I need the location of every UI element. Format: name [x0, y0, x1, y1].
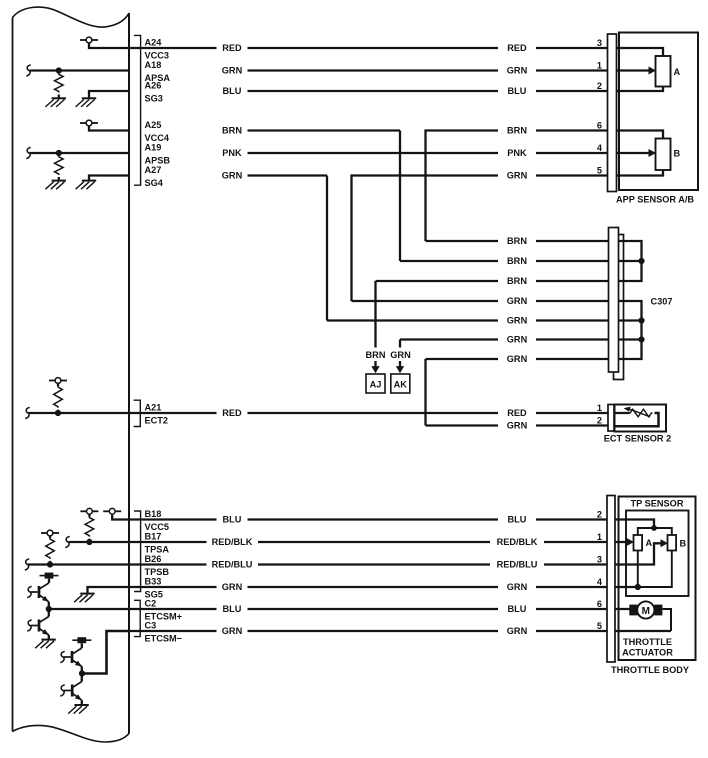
wire A26 BLU segment 3 to pot A bottom	[536, 87, 663, 92]
svg-text:6: 6	[597, 599, 602, 609]
wire C2 BLU segment 2	[248, 608, 499, 610]
ECT2 junction	[55, 410, 61, 416]
ETCSM- internal wire to C3	[82, 631, 129, 674]
TPSA internal wire	[69, 541, 130, 543]
svg-text:THROTTLE BODY: THROTTLE BODY	[611, 665, 689, 675]
svg-text:B18: B18	[145, 509, 162, 519]
TP pot bottom junction	[635, 584, 641, 590]
svg-text:ACTUATOR: ACTUATOR	[622, 647, 673, 657]
Q1 base hook	[27, 586, 31, 597]
svg-text:GRN: GRN	[507, 296, 528, 306]
TPSB pull-up resistor	[49, 536, 51, 538]
BRN branch down to connector AJ	[374, 281, 376, 348]
svg-text:1: 1	[597, 60, 602, 70]
svg-text:A19: A19	[145, 142, 162, 152]
Q2 base hook	[27, 620, 31, 631]
wire A19 PNK segment 3 wiper B	[536, 152, 649, 154]
svg-text:GRN: GRN	[390, 350, 411, 360]
TPSB supply symbol	[47, 530, 53, 536]
C307 row 2 BRN	[400, 260, 498, 262]
ETCSM- driver supply square	[77, 637, 86, 643]
svg-text:B33: B33	[145, 576, 162, 586]
ECM ribbon right edge	[128, 13, 130, 734]
wire BLU segment 3 to TP rail	[536, 520, 654, 529]
VCC3 supply symbol	[86, 37, 92, 43]
ECT2 supply symbol	[55, 378, 61, 384]
ETCSM+ driver supply square	[45, 573, 54, 579]
throttle body connector bar	[607, 496, 615, 663]
wire B17 RED/BLK segment 2	[258, 541, 490, 543]
APSB continuation hook	[26, 147, 30, 158]
ECM ribbon left edge	[12, 18, 14, 732]
svg-text:BLU: BLU	[508, 86, 527, 96]
svg-text:BLU: BLU	[223, 86, 242, 96]
bracket pins B18-SG5	[134, 511, 141, 592]
svg-text:BRN: BRN	[507, 236, 527, 246]
svg-text:GRN: GRN	[507, 421, 528, 431]
ETCSM+ low-side transistor Q2	[38, 620, 41, 632]
wire GRN segment 3 to pot commons	[536, 586, 638, 588]
APP sensor connector bar	[608, 34, 617, 192]
svg-text:RED: RED	[507, 43, 527, 53]
SG4 ground	[82, 180, 96, 182]
svg-text:GRN: GRN	[507, 354, 528, 364]
wire B33 GRN segment 1	[129, 586, 217, 588]
svg-text:AK: AK	[394, 379, 408, 389]
APSB junction	[56, 150, 62, 156]
Q4 base hook	[60, 685, 64, 696]
SG4 internal wire	[89, 176, 129, 181]
wire B26 RED/BLU segment 1	[129, 563, 207, 565]
APSA continuation hook	[26, 65, 30, 76]
svg-text:A25: A25	[145, 120, 162, 130]
svg-text:C3: C3	[145, 620, 157, 630]
wire C3 GRN segment 1	[129, 630, 217, 632]
motor return wire to pin 5	[662, 609, 671, 631]
svg-text:6: 6	[597, 120, 602, 130]
wire B26 RED/BLU segment 2	[258, 563, 490, 565]
connector AK box	[391, 374, 410, 393]
APSB internal wire	[30, 152, 130, 154]
svg-text:1: 1	[597, 403, 602, 413]
svg-text:RED/BLU: RED/BLU	[212, 560, 253, 570]
ETCSM+ junction	[46, 606, 52, 612]
GRN return riser from C307 row 4	[352, 176, 499, 302]
ETCSM- low-side transistor Q4	[71, 685, 74, 697]
svg-text:4: 4	[597, 143, 603, 153]
APSB pull-down resistor	[55, 156, 64, 175]
APSA internal wire	[30, 69, 130, 71]
svg-text:RED: RED	[222, 408, 242, 418]
wire B33 GRN segment 2	[248, 586, 499, 588]
svg-text:3: 3	[597, 554, 602, 564]
bracket pins C2-ETCSM	[134, 600, 140, 636]
TP sensor inner box	[626, 511, 689, 597]
svg-text:SG3: SG3	[145, 94, 163, 104]
wire A18 GRN segment 3 wiper A	[536, 69, 649, 71]
SG3 internal wire	[89, 91, 129, 98]
svg-text:ETCSM−: ETCSM−	[145, 634, 183, 644]
C307 GRN splice stubs	[618, 301, 642, 359]
wire A21 RED segment 2	[248, 412, 499, 414]
svg-text:2: 2	[597, 509, 602, 519]
C307 row 5 GRN	[327, 319, 498, 321]
BRN drop to C307 row 2	[399, 131, 401, 262]
wire A19 PNK segment 2	[248, 152, 499, 154]
TP sensor top rail wire	[638, 528, 672, 535]
svg-text:A24: A24	[145, 37, 163, 47]
svg-text:ECT SENSOR 2: ECT SENSOR 2	[604, 434, 671, 444]
ECT sensor 2 box	[615, 405, 667, 432]
svg-text:5: 5	[597, 621, 602, 631]
C307 GRN splice junctions	[638, 317, 644, 323]
APSA junction	[56, 67, 62, 73]
svg-text:5: 5	[597, 165, 602, 175]
ETCSM+ node wire	[48, 602, 50, 617]
svg-text:TP SENSOR: TP SENSOR	[631, 499, 684, 509]
wire GRN segment 3 to pot B bottom	[536, 170, 663, 176]
svg-text:PNK: PNK	[507, 148, 527, 158]
arrow into AK	[399, 361, 401, 367]
C307 BRN splice junction	[638, 258, 644, 264]
TP pot A bottom stem wire	[637, 551, 639, 588]
TPSB internal wire	[28, 563, 129, 565]
svg-text:4: 4	[597, 577, 603, 587]
svg-text:A18: A18	[145, 60, 162, 70]
svg-text:A21: A21	[145, 402, 162, 412]
TPSB junction	[47, 561, 53, 567]
C307 row 4 GRN	[352, 300, 499, 302]
arrow into AJ	[374, 361, 376, 367]
ETCSM- node wire	[81, 667, 83, 682]
wire BLU segment 3 to motor	[536, 608, 630, 610]
TP sensor rail junction	[651, 525, 657, 531]
ECT2 internal wire	[29, 412, 130, 414]
throttle actuator motor	[629, 605, 637, 616]
Q2 emitter ground	[48, 635, 50, 639]
svg-text:GRN: GRN	[222, 626, 243, 636]
GRN drop from row 7 to ECT sensor 2	[424, 359, 426, 426]
GRN drop to C307 row 5	[326, 176, 328, 321]
svg-text:2: 2	[597, 415, 602, 425]
svg-text:RED/BLK: RED/BLK	[497, 537, 538, 547]
wire A26 BLU segment 2	[248, 90, 499, 92]
svg-text:B26: B26	[145, 554, 162, 564]
svg-text:A26: A26	[145, 80, 162, 90]
connector AJ box	[366, 374, 385, 393]
wire A24 RED segment 2	[248, 47, 499, 49]
wire C2 BLU segment 1	[129, 608, 217, 610]
svg-text:RED/BLK: RED/BLK	[212, 537, 253, 547]
C307 row 3 BRN to AJ	[376, 280, 499, 282]
C307 connector bar	[609, 228, 619, 373]
svg-text:ECT2: ECT2	[145, 416, 169, 426]
ECT2 pull-up resistor	[57, 383, 59, 386]
APSB ground	[52, 180, 66, 182]
svg-text:BRN: BRN	[507, 126, 527, 136]
ECT thermistor	[629, 409, 653, 417]
ETCSM+ high-side transistor Q1	[48, 579, 50, 583]
wire A24 RED segment 1	[129, 47, 217, 49]
svg-text:GRN: GRN	[507, 171, 528, 181]
TP pot B bottom stem wire	[638, 551, 672, 588]
svg-text:BRN: BRN	[507, 276, 527, 286]
potentiometer B (TP sensor)	[668, 535, 677, 551]
svg-text:B: B	[680, 539, 687, 549]
svg-text:GRN: GRN	[222, 66, 243, 76]
svg-text:BRN: BRN	[507, 256, 527, 266]
TPSA continuation hook	[65, 536, 69, 547]
Q4 emitter ground	[81, 700, 83, 705]
wire B18 BLU segment 1	[129, 518, 217, 520]
ETCSM+ internal wire	[49, 608, 129, 610]
BRN return riser from C307 row 1	[426, 131, 499, 242]
svg-text:BRN: BRN	[222, 126, 242, 136]
APSA ground	[52, 97, 66, 99]
wire RED/BLK segment 3 wiper A	[544, 541, 627, 543]
wire GRN segment into ECT sensor pin 2	[426, 424, 499, 426]
wire RED segment 3 into ECT sensor	[536, 412, 629, 414]
VCC4 supply symbol	[86, 120, 92, 126]
potentiometer A (TP sensor)	[634, 535, 643, 551]
svg-text:BLU: BLU	[223, 604, 242, 614]
VCC5 supply symbol	[109, 508, 115, 514]
TPSA pull-up resistor	[88, 514, 90, 516]
svg-text:PNK: PNK	[222, 148, 242, 158]
svg-text:A27: A27	[145, 165, 162, 175]
svg-text:RED: RED	[507, 408, 527, 418]
svg-text:A: A	[674, 67, 681, 77]
wire B18 BLU segment 2	[248, 518, 499, 520]
svg-text:GRN: GRN	[507, 582, 528, 592]
C307 row 1 BRN	[426, 240, 499, 242]
wire GRN segment 3 to motor return	[536, 630, 671, 632]
svg-text:B: B	[674, 149, 681, 159]
SG3 ground	[82, 97, 96, 99]
C307 row 7 GRN to ECT sensor	[426, 358, 499, 360]
svg-text:BRN: BRN	[366, 350, 386, 360]
svg-text:M: M	[642, 606, 650, 617]
wire A24 RED segment 3 to pot A top	[536, 48, 663, 56]
VCC3 stem wire	[89, 43, 129, 48]
svg-text:GRN: GRN	[507, 66, 528, 76]
svg-text:GRN: GRN	[222, 171, 243, 181]
ECM ribbon torn top edge	[13, 7, 130, 27]
svg-text:1: 1	[597, 532, 602, 542]
svg-text:GRN: GRN	[507, 626, 528, 636]
svg-text:C2: C2	[145, 598, 157, 608]
APP sensor A/B box	[619, 33, 698, 191]
svg-text:GRN: GRN	[507, 316, 528, 326]
wire A21 RED segment 1	[129, 412, 217, 414]
svg-text:SG4: SG4	[145, 178, 164, 188]
svg-text:AJ: AJ	[370, 379, 382, 389]
svg-text:RED: RED	[222, 43, 242, 53]
potentiometer A (APP sensor)	[656, 56, 671, 87]
wire A27 GRN segment 2 to C307 drop	[248, 174, 328, 176]
svg-text:BLU: BLU	[223, 515, 242, 525]
bracket pins A21/ECT2	[134, 400, 141, 426]
svg-text:GRN: GRN	[507, 335, 528, 345]
ECT2 continuation hook	[25, 407, 29, 418]
potentiometer B (APP sensor)	[656, 139, 671, 171]
ECT thermistor arrow	[630, 409, 650, 417]
wire A18 GRN segment 2	[248, 69, 499, 71]
svg-text:GRN: GRN	[222, 582, 243, 592]
SG5 ground	[80, 593, 94, 595]
svg-text:BLU: BLU	[508, 515, 527, 525]
C307 row 6 GRN to AK	[400, 338, 498, 340]
ECM ribbon torn bottom edge	[13, 725, 130, 742]
svg-text:2: 2	[597, 81, 602, 91]
C307 connector shadow bar	[614, 235, 624, 380]
C307 BRN splice stubs	[618, 241, 642, 281]
throttle body box	[619, 497, 696, 661]
VCC4 stem wire	[89, 126, 129, 131]
GRN branch down to connector AK	[399, 340, 401, 348]
svg-text:A: A	[646, 538, 653, 548]
wire BRN segment 3 to pot B top	[536, 131, 663, 139]
wire C3 GRN segment 2	[248, 630, 499, 632]
VCC5 stem wire	[112, 514, 129, 519]
svg-text:BLU: BLU	[508, 604, 527, 614]
bracket pins A24-SG4	[134, 35, 141, 185]
TPSB continuation hook	[25, 559, 29, 570]
svg-text:APP SENSOR A/B: APP SENSOR A/B	[616, 195, 694, 205]
svg-text:C307: C307	[651, 297, 673, 307]
svg-text:RED/BLU: RED/BLU	[497, 560, 538, 570]
svg-text:B17: B17	[145, 531, 162, 541]
Q3 base hook	[60, 651, 64, 662]
TPSA junction	[86, 539, 92, 545]
ETCSM- high-side transistor Q3	[81, 643, 83, 648]
wire RED/BLU segment 3 wiper B	[544, 543, 661, 564]
wire B17 segment 1	[129, 541, 207, 543]
wire A25 BRN segment 2 to C307 drop	[248, 129, 401, 131]
APSA pull-down resistor	[55, 73, 64, 92]
ECT connector bar	[608, 405, 614, 432]
ETCSM- junction	[79, 670, 85, 676]
VCC5 supply symbol (resistor leg)	[87, 508, 93, 514]
svg-text:THROTTLE: THROTTLE	[623, 637, 672, 647]
SG5 internal wire	[88, 587, 130, 593]
svg-text:3: 3	[597, 38, 602, 48]
